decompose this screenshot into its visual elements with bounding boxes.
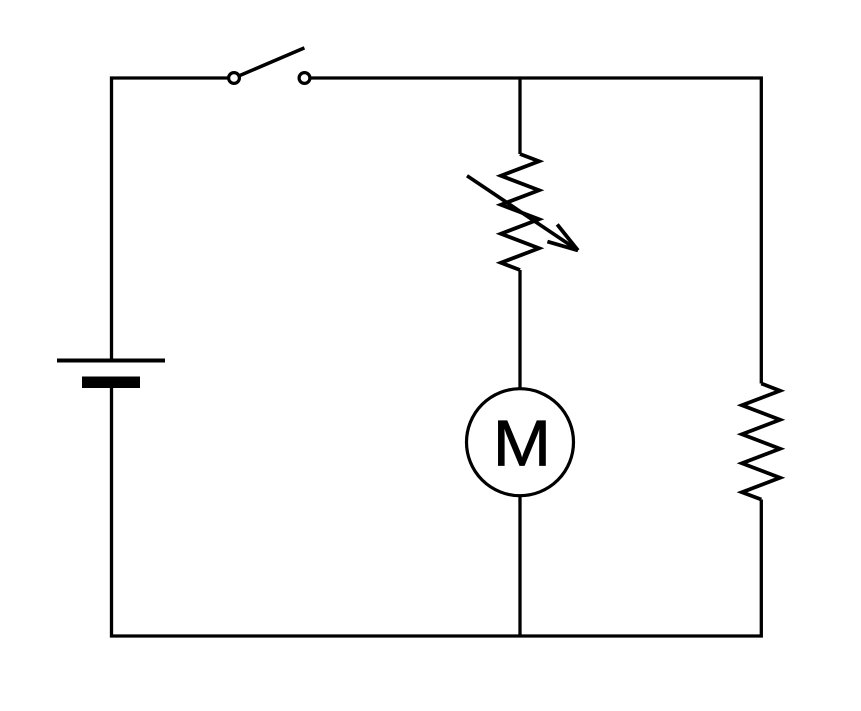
wire: middle branch from top node down to rheostat top <box>518 78 521 154</box>
battery cell: short thick negative plate <box>82 377 140 389</box>
wire: motor bottom to bottom node <box>518 496 521 636</box>
wire: top-left from switch to top-left corner, down left side to battery top plate <box>112 78 235 361</box>
switch right contact circle <box>299 73 310 84</box>
wire: bottom from middle node to bottom-right corner, up right side to resistor R bottom <box>520 500 761 637</box>
rheostat arrow head barb lower <box>547 242 578 251</box>
rheostat adjustment arrow shaft <box>467 176 578 251</box>
battery cell: long thin positive plate <box>57 359 165 363</box>
rheostat (variable resistor) zigzag body <box>501 154 539 270</box>
wire: rheostat bottom to motor top <box>518 270 521 389</box>
resistor R zigzag body <box>742 384 780 500</box>
switch left contact circle <box>229 73 240 84</box>
rheostat arrow head barb upper <box>557 224 578 250</box>
wire: battery bottom plate down to bottom-left corner, along bottom to middle node <box>112 382 521 636</box>
switch lever arm <box>234 48 304 78</box>
motor M1 circle <box>467 389 574 496</box>
svg-text:M: M <box>493 407 552 480</box>
wire: right side from resistor R top, up to top-right corner, along top to switch right contact <box>305 78 762 384</box>
